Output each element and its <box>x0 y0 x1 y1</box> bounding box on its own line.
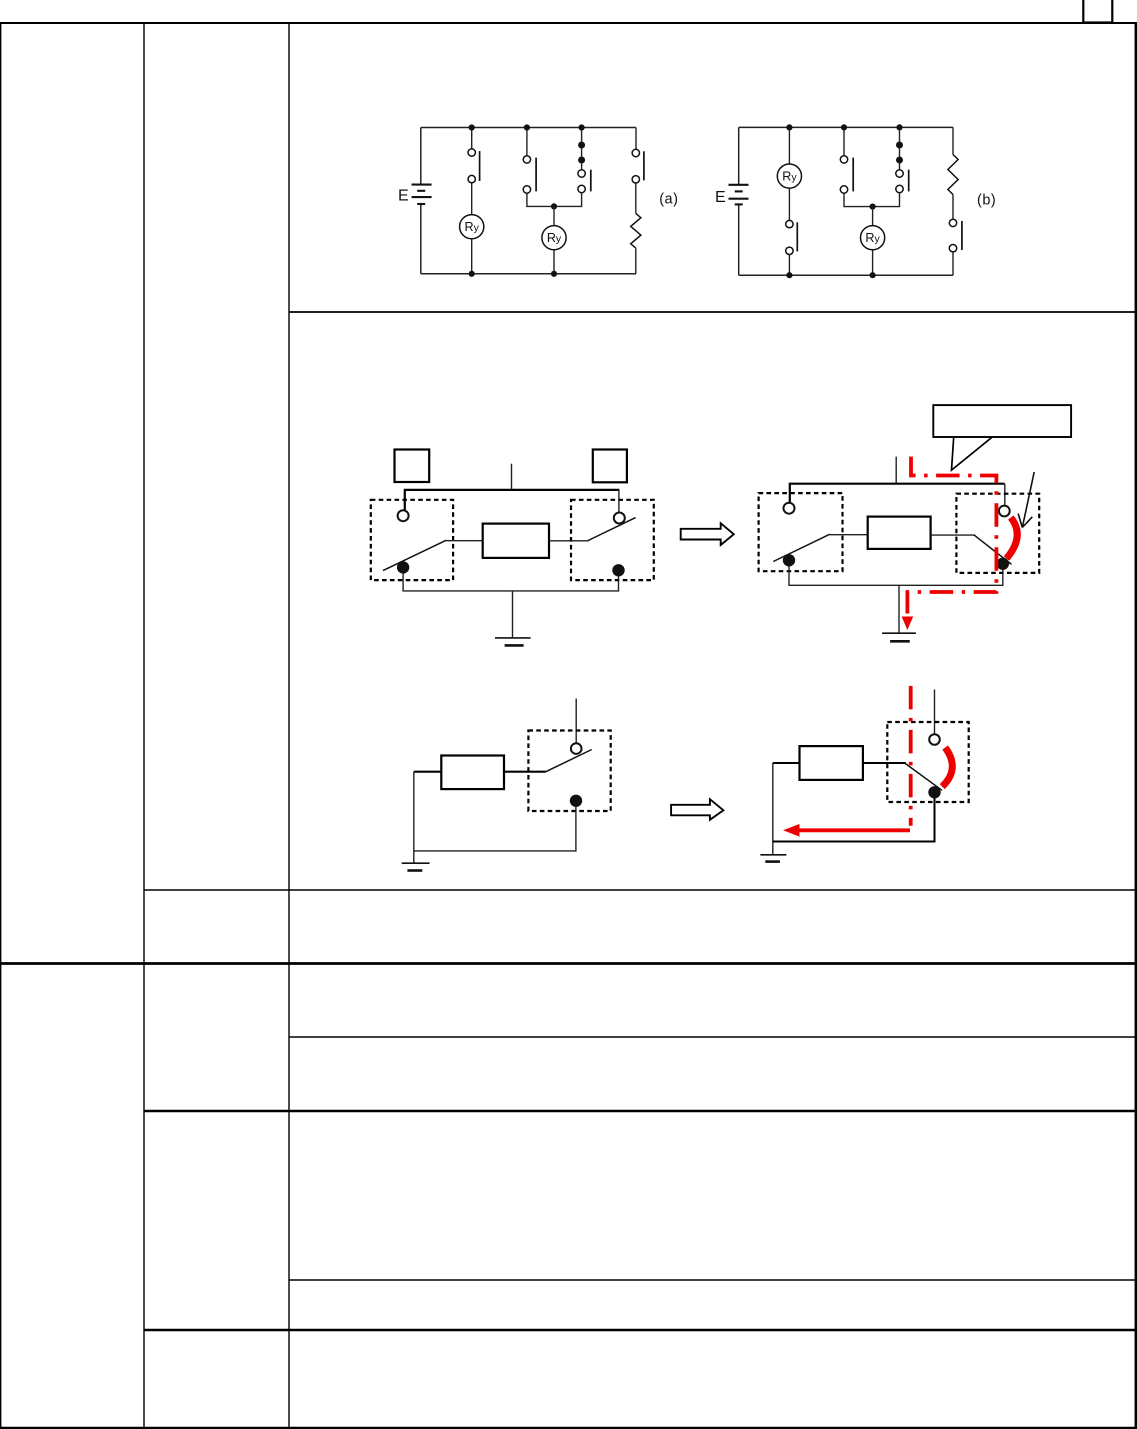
switch contact 1 (b) <box>786 220 793 254</box>
wire: battery branch (b) <box>738 127 740 275</box>
svg-text:Ry: Ry <box>865 231 880 245</box>
wire: supply stub <box>895 457 897 484</box>
big arrow 2 <box>671 799 723 820</box>
contact arm right (closed) <box>974 535 1012 565</box>
circuit (a) <box>398 124 678 277</box>
contact arm left (open) <box>773 534 830 561</box>
wire: box to arm (bold) <box>863 762 906 764</box>
dashed box: left contact <box>759 493 843 571</box>
wire: right drop <box>618 490 620 513</box>
dashed box: right contact <box>571 500 654 580</box>
contact common dot right <box>612 564 624 576</box>
wire: bottom return (bold) <box>773 798 935 841</box>
current path (red dash-dot) <box>909 686 913 826</box>
relay coil Ry2 (b) <box>861 226 885 250</box>
node: branch1 top (b) <box>786 124 792 130</box>
contact circle left <box>398 510 409 521</box>
wire: right drop <box>1004 484 1006 506</box>
contact circle <box>929 734 940 745</box>
wire: box to arm (bold) <box>504 771 546 773</box>
relay coil Ry1 (b) <box>777 164 801 188</box>
contact circle right <box>614 513 625 524</box>
wire: load box to right arm <box>931 534 975 536</box>
wire: arm to load box <box>446 540 482 542</box>
terminal box 1 <box>395 450 430 483</box>
wire: branch 4 (b) <box>952 127 954 275</box>
pointer arrow (black) <box>1018 472 1034 528</box>
wire: bottom return <box>789 566 1003 585</box>
switch contact 2 (a) <box>523 156 530 194</box>
contact circle <box>571 743 582 754</box>
wire: circuit (b) bottom rail <box>739 274 953 276</box>
wire: supply stub <box>511 464 513 490</box>
svg-text:Ry: Ry <box>465 220 480 234</box>
arc flash (contact closing) red <box>1007 518 1018 559</box>
wire: circuit (a) top rail <box>421 127 636 129</box>
switch contact 3 (b) <box>896 170 903 193</box>
node: branch23 bottom (a) <box>551 271 557 277</box>
node: branch1 bottom (b) <box>786 272 792 278</box>
callout balloon <box>933 405 1071 470</box>
contact circle left <box>784 503 795 514</box>
upper relay diagram, right (after state) <box>759 405 1072 641</box>
contact arm left (open) <box>383 540 446 570</box>
dashed box: contact <box>887 722 968 802</box>
contact arm (open) <box>546 750 592 772</box>
contact arm right (open) <box>588 518 636 541</box>
wire: arm to load box <box>830 534 868 536</box>
node: junction (b) <box>870 204 876 210</box>
wire: bottom return <box>414 807 576 851</box>
wire: branch 1 (b) <box>788 127 790 275</box>
load box <box>800 746 863 780</box>
wire: branch 4 (a) <box>635 128 637 274</box>
dashed box: contact <box>528 731 610 812</box>
wire: top rail (bold) <box>405 490 620 511</box>
switch contact 4 (b) <box>949 219 956 252</box>
wire: top rail (bold) <box>790 484 1005 504</box>
wire: branch 1 (a) <box>471 128 473 274</box>
current path (red dash-dot) <box>907 457 996 614</box>
contact common dot left <box>783 554 795 566</box>
ground <box>760 854 786 856</box>
current flow arrow (red) <box>799 828 910 832</box>
terminal box 2 <box>593 450 627 483</box>
wire: left down <box>772 763 774 855</box>
node: branch3 top (a) <box>579 124 585 130</box>
wire: branch 2 (a) <box>527 128 554 207</box>
wire: branch 3 (a) <box>554 128 582 207</box>
switch contact 2 (b) <box>840 156 847 194</box>
load box <box>483 524 549 558</box>
wire: circuit (b) top rail <box>739 126 953 128</box>
svg-text:(a): (a) <box>659 192 678 208</box>
wire: left down <box>413 772 415 864</box>
switch contact 4 (a) <box>632 149 639 183</box>
wire: circuit (a) bottom rail <box>421 273 636 275</box>
dashed box: right contact <box>956 494 1039 573</box>
wire: switch feed top <box>575 699 577 744</box>
svg-text:E: E <box>715 189 726 206</box>
wire: ground lead <box>898 585 900 633</box>
switch contact 1 (a) <box>468 149 475 183</box>
ground <box>495 637 531 639</box>
node: branch1 bottom (a) <box>469 271 475 277</box>
lower relay diagram, right (after state) <box>760 686 968 862</box>
wire: junction to Ry2 (a) <box>553 206 555 273</box>
arc flash (contact closing) red <box>942 748 952 787</box>
current path arrowhead (red) <box>902 617 914 631</box>
resistor (a) <box>631 213 641 248</box>
ground <box>882 632 916 634</box>
wire: ground lead <box>512 591 514 638</box>
node: junction (a) <box>551 203 557 209</box>
wire: branch 3 (b) <box>873 127 900 206</box>
wire: bottom return <box>403 573 618 591</box>
dashed box: left contact <box>371 500 453 580</box>
contact common dot <box>928 786 940 798</box>
node: branch23 bottom (b) <box>870 272 876 278</box>
wire: battery branch (a) <box>420 128 422 274</box>
load box <box>441 756 504 790</box>
relay coil Ry2 (a) <box>542 226 566 250</box>
wire: junction to Ry2 (b) <box>872 207 874 276</box>
lower relay diagram, left (before state) <box>402 699 611 871</box>
wire: left lead (bold) <box>773 762 800 764</box>
linked contact dots (b) <box>896 142 903 149</box>
contact arm (closed) <box>905 763 942 790</box>
battery E (b) <box>729 185 749 205</box>
linked contact dots (a) <box>578 142 585 149</box>
node: branch2 top (a) <box>524 124 530 130</box>
upper relay diagram, left (before state) <box>371 450 654 646</box>
node: branch1 top (a) <box>469 124 475 130</box>
circuit (b) <box>715 124 996 278</box>
contact circle right <box>999 506 1010 517</box>
svg-text:(b): (b) <box>977 193 996 209</box>
node: branch2 top (b) <box>841 124 847 130</box>
contact common dot right <box>997 558 1009 570</box>
contact common dot <box>570 795 582 807</box>
switch contact 3 (a) <box>578 170 585 193</box>
ground <box>402 862 430 864</box>
svg-text:E: E <box>398 187 409 204</box>
wire: load box to right arm <box>549 540 589 542</box>
wire: branch 2 (b) <box>844 127 873 206</box>
wire: switch feed top <box>934 690 936 735</box>
battery E (a) <box>412 185 432 204</box>
big arrow 1 <box>681 523 734 545</box>
resistor (b) <box>948 155 958 195</box>
contact common dot left <box>397 561 409 573</box>
wire: left lead (bold) <box>414 771 442 773</box>
svg-text:Ry: Ry <box>782 170 797 184</box>
svg-text:Ry: Ry <box>547 231 562 245</box>
load box <box>868 517 931 549</box>
node: branch3 top (b) <box>896 124 902 130</box>
relay coil Ry1 (a) <box>460 215 484 239</box>
